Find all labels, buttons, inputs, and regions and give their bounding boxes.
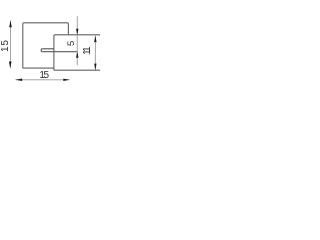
dimension 15 bottom: text label	[39, 71, 47, 81]
dimension 15 left: line	[10, 21, 12, 69]
part outline: bottom-left edge	[23, 67, 54, 69]
part outline: top edge with rounded top-left corner	[23, 23, 69, 35]
dimension 15 left: up arrowhead	[9, 20, 12, 27]
dimension 5: text label (rotated)	[66, 41, 75, 46]
dimension 5: up arrowhead	[76, 51, 78, 58]
part outline: long horizontal shelf	[55, 34, 100, 36]
slot: bottom line extending right	[42, 51, 77, 53]
dimension 11 right: up arrowhead	[94, 36, 96, 43]
dimension 15 left: down arrowhead	[9, 62, 12, 69]
part outline: mid vertical with rounded corner at shelf	[54, 35, 55, 70]
part outline: left edge	[22, 24, 24, 68]
slot: top line	[42, 48, 54, 50]
dimension 11 right: down arrowhead	[94, 64, 96, 71]
dimension 15 bottom: line	[16, 79, 70, 81]
dimension 15 bottom: right arrowhead	[63, 79, 70, 81]
part outline: bottom-right edge	[54, 69, 100, 71]
dimension 15 bottom: left arrowhead	[15, 79, 22, 82]
dimension 5: down arrowhead	[76, 29, 78, 36]
background	[0, 0, 100, 100]
dimension 5: vertical line through notch	[76, 16, 78, 65]
dimension 11 right: line	[94, 36, 96, 70]
slot: rounded left cap	[41, 49, 42, 52]
dimension 11 right: text label (rotated)	[83, 48, 93, 55]
dimension 15 left: text label (rotated)	[1, 39, 11, 52]
